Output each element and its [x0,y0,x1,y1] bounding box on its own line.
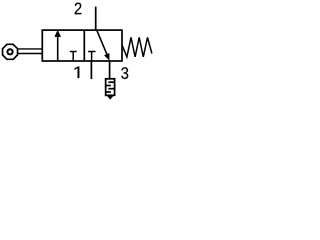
silencer exhaust triangle [107,96,114,100]
left box flow arrow shaft [57,35,59,61]
silencer baffle bar 4 [106,91,111,93]
port 2 line [95,7,97,31]
roller wheel outer octagon [3,44,18,59]
port 3 line [109,61,111,79]
right box blocked port T stem [91,52,93,62]
plunger bottom line [17,53,43,55]
label port 1 [75,67,80,78]
position divider [83,30,85,61]
right box blocked port T cap [88,51,95,53]
left box flow arrow head [54,30,61,37]
silencer baffle bar 2 [106,85,111,87]
right box diagonal flow arrow head [104,53,109,61]
return spring [122,37,152,57]
left box blocked port T cap [70,51,77,53]
label port 2 [75,3,82,15]
roller wheel inner circle [7,49,12,54]
valve body outline [42,30,122,61]
label port 3 [121,67,128,79]
left box blocked port T stem [72,52,74,62]
silencer body [106,79,115,96]
plunger top line [17,48,43,50]
right box diagonal flow shaft [97,30,108,56]
silencer baffle bar 3 [108,88,114,90]
silencer baffle bar 1 [108,81,114,83]
port 1 stub line [90,61,92,79]
